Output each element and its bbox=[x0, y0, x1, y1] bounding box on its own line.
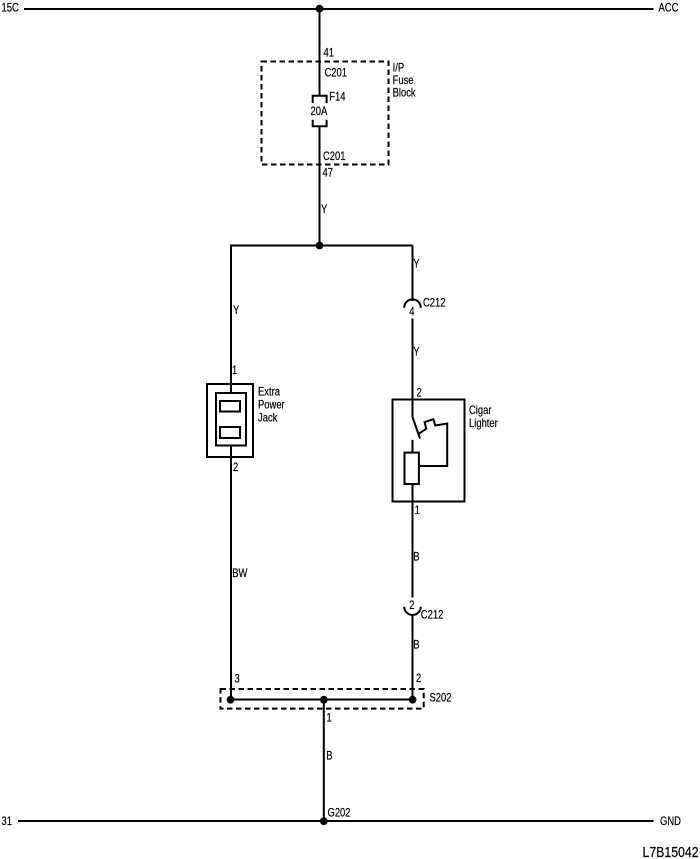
wire: fuse F14 to splice (Y) bbox=[319, 126, 321, 246]
svg-text:C201: C201 bbox=[323, 150, 346, 163]
wire: C212 pin 2 down to splice S202 pin 2 (B) bbox=[412, 615, 414, 700]
svg-text:1: 1 bbox=[415, 504, 420, 517]
wire: right branch Y down to connector C212 pin 4 bbox=[412, 246, 414, 302]
cigar lighter box outline bbox=[393, 400, 465, 502]
svg-text:2: 2 bbox=[417, 387, 422, 400]
wire: ACC power rail (15C) bbox=[24, 8, 654, 10]
svg-text:4: 4 bbox=[409, 306, 414, 319]
svg-text:Cigar: Cigar bbox=[469, 404, 492, 417]
node: S202 pin 1 junction bbox=[320, 696, 328, 704]
svg-text:47: 47 bbox=[323, 167, 334, 180]
fuse F14 symbol bottom bracket bbox=[313, 120, 327, 127]
svg-text:2: 2 bbox=[233, 461, 238, 474]
wire: ground rail 31/GND bbox=[18, 820, 654, 822]
svg-text:L7B15042: L7B15042 bbox=[643, 844, 699, 859]
svg-text:2: 2 bbox=[409, 599, 414, 612]
svg-text:C212: C212 bbox=[421, 608, 444, 621]
I/P fuse block dashed outline bbox=[262, 62, 389, 165]
svg-text:Power: Power bbox=[258, 399, 285, 412]
cigar lighter resistor body bbox=[405, 453, 419, 484]
svg-text:Lighter: Lighter bbox=[469, 417, 498, 430]
svg-text:C212: C212 bbox=[423, 297, 446, 310]
svg-text:ACC: ACC bbox=[659, 2, 679, 15]
svg-text:S202: S202 bbox=[430, 692, 452, 705]
svg-text:15C: 15C bbox=[2, 2, 20, 15]
svg-text:Y: Y bbox=[321, 203, 327, 216]
ground node G202 bbox=[320, 817, 328, 825]
svg-text:3: 3 bbox=[235, 673, 240, 686]
svg-text:2: 2 bbox=[416, 672, 421, 685]
svg-text:Block: Block bbox=[393, 87, 417, 100]
svg-text:1: 1 bbox=[232, 364, 237, 377]
svg-text:C201: C201 bbox=[325, 67, 348, 80]
svg-text:Extra: Extra bbox=[258, 386, 280, 399]
extra power jack lower slot bbox=[220, 427, 240, 438]
svg-text:41: 41 bbox=[324, 47, 335, 60]
svg-text:1: 1 bbox=[327, 712, 332, 725]
splice S202 dashed outline bbox=[221, 689, 424, 709]
svg-text:B: B bbox=[326, 750, 332, 763]
cigar lighter switch blade bbox=[413, 417, 421, 439]
node: Y splice junction bbox=[316, 242, 324, 250]
wire: Extra Power Jack pin 2 down to splice S202 pin 3 (BW) bbox=[230, 445, 232, 700]
svg-text:Y: Y bbox=[413, 258, 419, 271]
wire: Cigar Lighter pin 1 down to connector C212 pin 2 (B) bbox=[412, 484, 414, 598]
svg-text:G202: G202 bbox=[328, 807, 351, 820]
node: junction on ACC rail bbox=[316, 5, 324, 13]
svg-text:B: B bbox=[413, 639, 419, 652]
svg-text:Fuse: Fuse bbox=[393, 74, 414, 87]
svg-text:B: B bbox=[413, 551, 419, 564]
wire: C212 pin 4 down to Cigar Lighter pin 2 (Y) bbox=[412, 319, 414, 418]
node: S202 pin 3 junction bbox=[227, 696, 235, 704]
splice S202 bus bar bbox=[231, 699, 413, 701]
wire: left branch Y down to Extra Power Jack pin 1 bbox=[230, 246, 232, 394]
wire: S202 pin 1 down to ground G202 (B) bbox=[323, 700, 325, 822]
svg-text:F14: F14 bbox=[329, 90, 345, 103]
extra power jack upper slot bbox=[220, 401, 240, 412]
svg-text:BW: BW bbox=[232, 567, 247, 580]
svg-text:Y: Y bbox=[233, 304, 239, 317]
svg-text:20A: 20A bbox=[311, 105, 328, 118]
cigar lighter element lead stub bbox=[412, 440, 414, 453]
node: S202 pin 2 junction bbox=[409, 696, 417, 704]
extra power jack outer housing bbox=[207, 384, 253, 457]
wire: splice horizontal run bbox=[230, 245, 413, 247]
wire: feed from ACC rail down to fuse F14 bbox=[319, 9, 321, 96]
svg-text:GND: GND bbox=[660, 815, 681, 828]
extra power jack inner connector body bbox=[216, 393, 246, 446]
cigar lighter heating element zigzag and return path bbox=[419, 419, 447, 466]
connector C212 pin 2 half-circle symbol bbox=[404, 607, 421, 615]
svg-text:I/P: I/P bbox=[393, 61, 405, 74]
svg-text:Jack: Jack bbox=[258, 412, 278, 425]
connector C212 pin 4 half-circle symbol bbox=[404, 299, 421, 307]
svg-text:Y: Y bbox=[413, 346, 419, 359]
fuse F14 symbol top bracket bbox=[313, 96, 327, 103]
svg-text:31: 31 bbox=[2, 815, 13, 828]
